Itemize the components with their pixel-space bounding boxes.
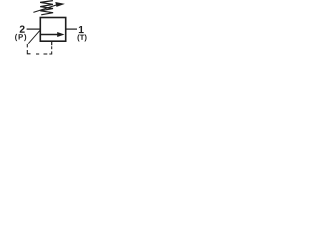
label port 1 xyxy=(79,26,84,33)
drain tick xyxy=(51,41,53,45)
label (P) xyxy=(15,34,26,41)
adjustment arrow head xyxy=(55,2,65,7)
adjustment arrow shaft xyxy=(33,5,57,13)
pilot dash left corner xyxy=(27,50,30,54)
valve envelope (box) xyxy=(40,18,65,42)
flow arrow head xyxy=(57,32,64,37)
pilot dash bottom left xyxy=(36,53,39,55)
port 2 line xyxy=(27,28,41,30)
pilot dash left vertical xyxy=(26,44,28,48)
background xyxy=(0,0,97,58)
label (T) xyxy=(77,34,86,41)
flow arrow shaft xyxy=(40,34,59,36)
pilot dash right vertical xyxy=(51,46,53,49)
pilot dash bottom middle xyxy=(44,53,48,55)
pilot dash right corner xyxy=(49,51,51,54)
port 1 line xyxy=(66,28,77,30)
pilot tap diagonal xyxy=(28,30,40,43)
label port 2 xyxy=(20,25,25,32)
spring (adjustable zigzag) xyxy=(40,1,53,15)
